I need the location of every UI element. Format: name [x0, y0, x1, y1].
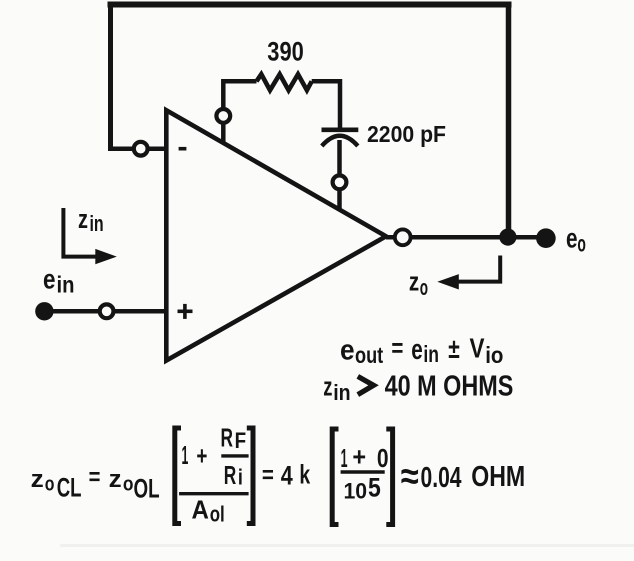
wire feedback right vertical: [506, 2, 512, 237]
svg-text:e: e: [566, 223, 578, 254]
svg-text:≈: ≈: [401, 456, 419, 498]
svg-text:z: z: [323, 372, 332, 402]
scan artifact line: [60, 544, 634, 547]
svg-text:A: A: [192, 496, 209, 524]
svg-text:V: V: [470, 333, 485, 364]
bracket left of first fraction: [175, 428, 181, 524]
svg-text:1: 1: [182, 440, 189, 470]
z_o arrow: [437, 256, 500, 290]
op-amp U1 triangle: [166, 110, 386, 360]
resistor RF zigzag: [257, 74, 312, 90]
svg-text:z: z: [78, 204, 88, 234]
z_in arrow: [63, 208, 116, 264]
label = 4 k: [262, 459, 311, 490]
wire non-inverting input: [45, 309, 167, 314]
fraction (1+0)/10^5: [341, 442, 389, 504]
svg-text:z: z: [109, 466, 122, 493]
svg-text:R: R: [221, 425, 234, 453]
svg-text:io: io: [485, 342, 503, 368]
svg-text:o: o: [420, 275, 428, 300]
svg-text:i: i: [238, 465, 243, 490]
label equation zin > 40 M OHMS: [323, 370, 513, 404]
svg-text:OHM: OHM: [471, 461, 525, 493]
label formula zoCL = zoOL: [31, 464, 160, 504]
svg-text:CL: CL: [57, 472, 82, 502]
svg-text:5: 5: [368, 472, 381, 502]
svg-text:o: o: [123, 474, 134, 496]
svg-text:=: =: [391, 333, 403, 363]
terminal dot e_o: [536, 228, 556, 248]
svg-text:z: z: [409, 267, 419, 297]
wire top feedback horizontal: [108, 2, 512, 8]
svg-text:2200 pF: 2200 pF: [367, 121, 446, 147]
wire resistor branch left lead: [223, 81, 256, 144]
svg-text:=: =: [89, 464, 101, 491]
svg-text:e: e: [340, 335, 355, 367]
svg-text:in: in: [90, 211, 104, 236]
svg-text:40 M OHMS: 40 M OHMS: [385, 370, 514, 402]
svg-text:0: 0: [377, 443, 389, 473]
wire output: [386, 235, 546, 240]
svg-text:=: =: [262, 462, 274, 489]
svg-text:in: in: [423, 341, 439, 367]
bracket right of second fraction: [386, 429, 392, 525]
svg-text:e: e: [411, 334, 423, 366]
label equation eout = ein +/- Vio: [340, 333, 503, 369]
label e_in: [43, 264, 75, 298]
svg-text:R: R: [224, 462, 237, 490]
svg-text:0.04: 0.04: [421, 462, 462, 494]
capacitor C top plate: [322, 128, 359, 133]
wire capacitor to op-amp edge: [337, 140, 342, 210]
svg-text:4: 4: [281, 461, 293, 491]
node circle inverting input: [134, 142, 148, 156]
svg-text:F: F: [235, 428, 247, 453]
node circle capacitor tap on top edge: [333, 175, 347, 189]
op-amp minus sign: [179, 147, 187, 151]
node circle non-inverting input: [100, 304, 114, 318]
op-amp plus sign: [178, 304, 193, 319]
svg-text:e: e: [43, 264, 56, 295]
svg-text:10: 10: [344, 478, 368, 503]
junction dot output node: [499, 229, 516, 246]
wire feedback left vertical: [108, 2, 113, 151]
svg-text:in: in: [333, 380, 350, 405]
svg-text:o: o: [45, 474, 55, 496]
terminal dot e_in: [35, 302, 53, 320]
svg-text:OL: OL: [134, 474, 160, 504]
svg-text:z: z: [31, 466, 44, 493]
label z_in: [78, 204, 104, 236]
svg-text:ol: ol: [210, 502, 225, 527]
svg-text:o: o: [577, 231, 586, 257]
svg-text:+: +: [352, 442, 366, 472]
label approx 0.04 OHM: [401, 456, 525, 498]
svg-text:k: k: [299, 459, 310, 489]
svg-text:in: in: [57, 272, 75, 298]
fraction (1 + RF/Ri)/Aol: [179, 425, 249, 527]
label e_o: [566, 223, 586, 257]
svg-text:+: +: [196, 440, 207, 470]
svg-text:390: 390: [267, 37, 304, 67]
wire resistor branch right lead: [312, 81, 340, 130]
node circle output: [395, 229, 411, 245]
wire inverting input: [108, 146, 167, 151]
capacitor C bottom curved plate: [322, 136, 358, 146]
bracket left of second fraction: [332, 429, 338, 525]
bracket right of first fraction: [247, 428, 253, 524]
svg-text:out: out: [355, 342, 383, 368]
svg-text:±: ±: [448, 333, 460, 364]
svg-text:1: 1: [341, 443, 348, 473]
node circle resistor tap on top edge: [216, 109, 230, 123]
label z_o: [409, 267, 428, 300]
